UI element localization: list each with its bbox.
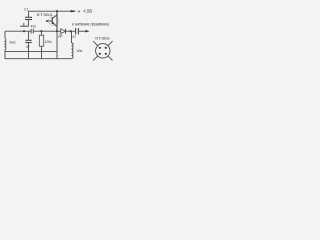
svg-text:к антенне приемника: к антенне приемника (72, 22, 109, 27)
pin lead bottom-left (93, 56, 98, 61)
wire emitter down column (56, 31, 58, 59)
capacitor C2 (25, 31, 31, 59)
transistor VT1 KT363 (47, 11, 58, 31)
transistor case pinout bottom view (93, 41, 113, 61)
node open stub / socket above wire (20, 23, 29, 26)
svg-text:Д9: Д9 (58, 34, 62, 38)
wire base bus y31 right (34, 30, 58, 32)
wire base bus y31 left (5, 30, 31, 32)
junction dot (40, 30, 42, 32)
svg-text:6м2: 6м2 (10, 41, 16, 45)
svg-text:4,5В: 4,5В (83, 9, 92, 14)
inductor choke Dr1 (71, 31, 73, 59)
output arrow to antenna (85, 30, 89, 33)
junction dot (56, 30, 58, 32)
label +4,5V (78, 9, 93, 14)
power arrow +4,5V (71, 10, 76, 12)
inductor L1 (4, 39, 7, 59)
capacitor series in base bus (30, 29, 32, 34)
svg-text:430: 430 (31, 25, 37, 29)
pin lead top-right (108, 41, 113, 46)
svg-text:47: 47 (72, 35, 76, 39)
svg-text:100к: 100к (45, 40, 53, 44)
svg-text:10м: 10м (76, 49, 83, 53)
capacitor C3 (71, 28, 86, 34)
resistor R1 (39, 31, 43, 59)
pin tip marks (93, 41, 94, 42)
svg-text:КТ363: КТ363 (37, 12, 54, 17)
pin lead top-left (93, 41, 98, 46)
pin lead bottom-right (108, 56, 113, 61)
node choke junction (70, 30, 72, 32)
capacitor C1 (25, 11, 32, 26)
wire ground rail B (5, 58, 71, 60)
node base junction (46, 20, 48, 22)
wire left drop to coil (4, 31, 6, 38)
wire tap line A to emitter (6, 50, 57, 52)
diode VD1 (57, 29, 71, 34)
svg-text:КТ363: КТ363 (95, 35, 109, 40)
junction dot (23, 30, 25, 32)
wire top supply rail (29, 10, 73, 12)
node collector junction on top rail (56, 10, 58, 12)
svg-text:С1: С1 (24, 7, 28, 11)
svg-text:47: 47 (26, 45, 30, 49)
svg-text:+: + (78, 9, 81, 14)
